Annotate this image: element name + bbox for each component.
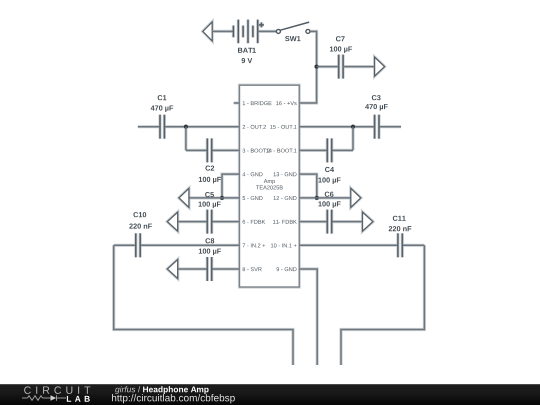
capacitor C5 [207,210,211,234]
wire pin7 row (IN.2+) [114,244,240,246]
U1 pin 9 label [277,267,297,271]
wire pin15 row (OUT.1) [299,126,401,128]
capacitor C4 [327,138,331,162]
wire C7 branch [317,66,339,68]
wire pin5 row (GND) [189,197,240,199]
wire pin13 row (GND) to pin12 junction [299,174,317,198]
wire battery to switch [258,30,277,32]
U1 pin 1 label [243,101,272,105]
label C1 value [151,95,174,112]
wire pin10 down-left loop to bottom [341,245,424,365]
U1 pin 13 label [274,172,297,176]
wire pin11 row (FDBK) [299,221,362,223]
label C2 value [199,166,221,184]
label SW1 [285,36,300,41]
junction node pin13/pin12 [315,196,319,200]
wire C7 to port [343,66,375,68]
junction node pin2/pin3 [184,125,188,129]
label C10 value [129,212,152,229]
wire pin6 row (FDBK) [178,221,240,223]
wire pin2 row (OUT.2) [138,126,240,128]
label C4 value [318,167,340,184]
wire battery left lead [212,30,233,32]
wire pin4 row (GND) to pin5 junction [222,174,240,198]
U1 pin 8 label [243,267,262,271]
wire pin12 row (GND) [299,197,351,199]
wire pin10 row (IN.1+) [299,244,424,246]
wire pin8 row (SVR) [178,268,240,270]
wire junction down to pin3 row [185,127,187,151]
wire pin14 row (BOOT.1) [299,149,353,151]
capacitor C3 [375,115,379,139]
capacitor C2 [207,138,211,162]
U1 name label Amp TEA2025B [256,179,283,189]
U1 pin 4 label [242,172,262,176]
label BAT1 value [238,48,256,63]
wire junction down to pin14 row [352,127,354,151]
label C8 value [199,238,221,255]
switch SW1 [276,22,310,33]
junction node pin15/pin14 [351,125,355,129]
U1 pin 12 label [274,196,297,200]
U1 pin 3 label [243,149,271,153]
wire switch to +Vs vertical [299,31,316,103]
pin 1 stub [234,102,240,104]
CircuitLab logo wordmark [24,386,90,401]
capacitor C6 [327,210,331,234]
wire pin9 row (GND) down to bottom [299,269,317,365]
U1 pin 14 label [266,149,296,153]
U1 pin 6 label [243,220,266,224]
wire pin3 row (BOOT.2) [186,149,240,151]
footer title text [112,386,235,403]
label C11 value [389,216,412,232]
junction node +Vs / C7 [315,65,319,69]
capacitor C11 [398,233,402,257]
U1 pin 11 label [273,220,297,224]
CircuitLab logo resistor-diode doodle [22,395,66,401]
capacitor C1 [160,115,164,139]
port GND pin5 (left arrow) [179,188,189,207]
port GND pin12 (right arrow) [351,188,361,207]
U1 pin 2 label [243,125,266,129]
wire halo layer (soft edge emulation) [114,20,425,365]
label C7 value [330,36,352,53]
capacitor C10 [136,233,140,257]
port FDBK1 (right arrow pin11) [363,212,373,231]
U1 pin 15 label [270,125,296,129]
label C6 value [318,192,340,208]
port VBAT (left arrow at battery) [203,22,212,41]
op-amp U1 TEA2025B body [240,85,300,287]
port FDBK2 (left arrow pin6) [167,212,177,231]
U1 pin 5 label [243,196,263,200]
port headphone supply (right arrow C7) [375,57,385,76]
port SVR (left arrow pin8) [167,260,177,279]
label C5 value [199,192,221,208]
U1 pin 16 label [276,101,296,105]
junction node pin4/pin5 [220,196,224,200]
label C3 value [365,95,388,111]
wire pin7 down-left loop to bottom [114,245,293,365]
U1 pin 7 label [243,243,266,247]
battery BAT1 [233,20,264,44]
U1 pin 10 label [271,243,297,247]
capacitor C8 [207,257,211,281]
capacitor C7 [339,55,343,79]
